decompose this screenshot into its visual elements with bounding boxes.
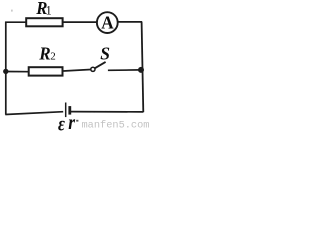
ammeter A1 circle: [97, 12, 118, 33]
wire: top right horizontal: [118, 21, 142, 23]
wire: top left horizontal to R1: [5, 21, 26, 23]
svg-text:r: r: [68, 112, 75, 132]
battery long plate: [65, 103, 67, 118]
svg-text:1: 1: [46, 4, 52, 18]
svg-text:A: A: [101, 13, 113, 33]
switch S lever: [95, 62, 106, 68]
wire: bottom left horizontal: [5, 112, 63, 115]
svg-text:R: R: [38, 43, 50, 63]
wire: middle left horizontal to R2: [6, 71, 29, 73]
svg-text:manfen5.com: manfen5.com: [82, 120, 150, 132]
node: left junction dot: [3, 69, 8, 74]
node: right junction dot: [138, 67, 144, 73]
resistor R1 box: [26, 18, 62, 26]
switch S pivot circle: [91, 67, 95, 71]
speck top-left: [11, 10, 12, 12]
svg-text:ε: ε: [58, 111, 65, 132]
wire: bottom right horizontal: [71, 111, 143, 113]
svg-text:S: S: [100, 44, 110, 64]
resistor R2 box: [29, 67, 63, 75]
wire: right vertical: [142, 22, 144, 112]
svg-text:2: 2: [50, 51, 56, 63]
wire: left vertical: [5, 22, 7, 115]
speck left of watermark: [76, 120, 78, 122]
wire: top between R1 and ammeter: [64, 21, 97, 23]
battery short thick plate: [68, 106, 71, 115]
wire: middle right horizontal: [108, 69, 142, 71]
wire: middle between R2 and switch: [64, 70, 91, 72]
